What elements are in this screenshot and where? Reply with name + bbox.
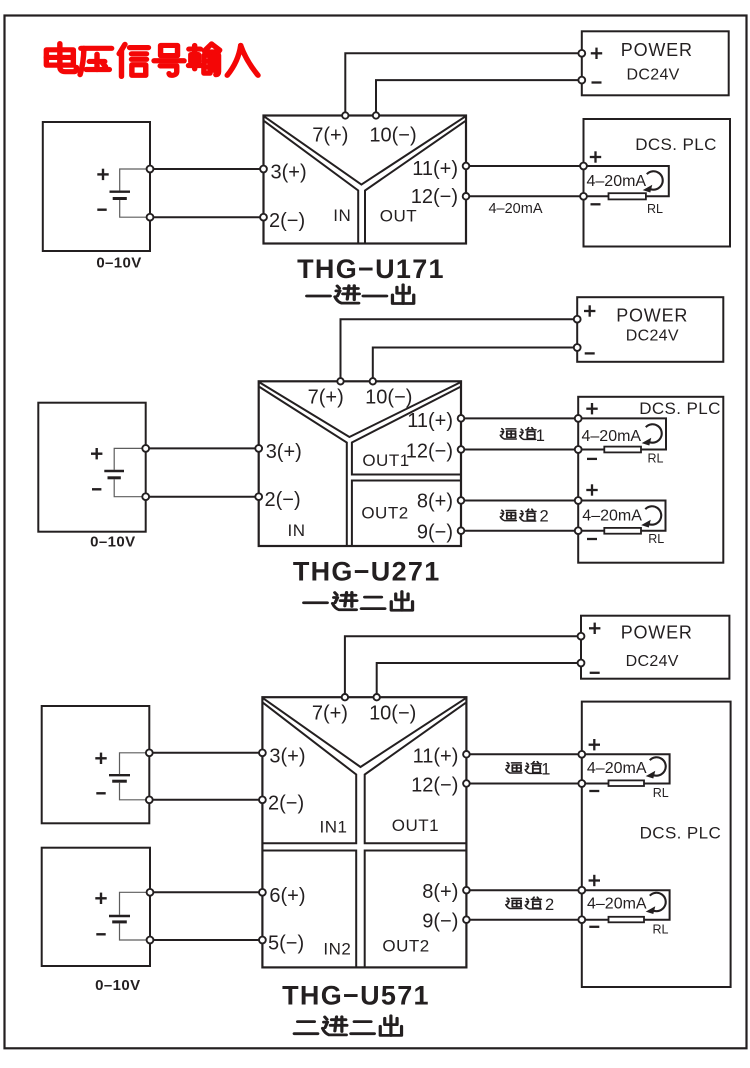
P1 + sign <box>591 48 602 59</box>
svg-text:DCS. PLC: DCS. PLC <box>635 135 717 154</box>
battery symbol VS1 <box>97 169 147 218</box>
svg-text:IN1: IN1 <box>320 817 348 836</box>
U2 pin 2 terminal <box>255 493 262 500</box>
wire U1 pin12 to D1 - <box>469 195 583 197</box>
U2 pin 10 terminal <box>370 378 376 384</box>
svg-text:DCS. PLC: DCS. PLC <box>640 824 722 843</box>
U2 pin 12 terminal <box>458 446 465 453</box>
svg-text:1: 1 <box>541 761 550 779</box>
D2 ch2 current loop <box>582 501 666 531</box>
U2 pin 11 terminal <box>458 415 465 422</box>
wire VS3b- to U3 5(-) <box>153 939 262 941</box>
node VS3a - <box>146 796 153 803</box>
P3 + sign <box>589 623 600 634</box>
P1 + terminal <box>578 50 585 57</box>
voltage source box VS3b (0-10V) <box>42 848 150 966</box>
svg-text:4–20mA: 4–20mA <box>582 428 642 445</box>
svg-text:7(+): 7(+) <box>308 387 344 409</box>
svg-text:RL: RL <box>648 451 664 465</box>
U3 pin 5 terminal <box>259 937 266 944</box>
svg-text:4–20mA: 4–20mA <box>488 201 542 217</box>
label 通道 2 (channel 2, U3) <box>506 896 554 914</box>
node VS2 + <box>142 445 149 452</box>
U2 IN section divider <box>259 387 346 546</box>
U1 pin 12 terminal <box>463 193 470 200</box>
battery symbol VS2 <box>91 448 143 497</box>
wire U1 pin11 to D1 + <box>469 165 583 167</box>
D2 ch1 load resistor RL <box>604 447 641 453</box>
svg-text:DC24V: DC24V <box>626 328 679 345</box>
wire U2 pin8 to D2 ch2+ <box>464 500 578 502</box>
svg-text:IN2: IN2 <box>323 939 351 958</box>
D2 ch2 + terminal <box>575 497 582 504</box>
label 通道1 (channel 1, U3) <box>506 761 551 779</box>
svg-text:3(+): 3(+) <box>269 745 305 767</box>
P3 + terminal <box>578 633 585 640</box>
svg-text:IN: IN <box>288 521 306 540</box>
svg-text:2(−): 2(−) <box>265 489 301 511</box>
wire U2 pin10 to P2 - <box>373 348 574 378</box>
power supply box P1 <box>582 31 729 95</box>
isolator module U3 THG-U571 body <box>262 697 466 967</box>
wire VS2- to U2 2(-) <box>149 496 259 498</box>
wire VS2+ to U2 3(+) <box>149 447 259 449</box>
D1 + sign <box>590 151 601 162</box>
U3 OUT1 section divider <box>365 703 467 843</box>
DCS PLC box D1 <box>584 119 731 247</box>
svg-text:DC24V: DC24V <box>627 66 680 83</box>
U3 pin 12 terminal <box>463 780 470 787</box>
D3 ch1 current loop <box>585 754 669 783</box>
svg-text:RL: RL <box>653 923 669 937</box>
svg-text:2(−): 2(−) <box>268 792 304 814</box>
D2 ch1 - sign <box>587 458 597 460</box>
D3 ch2 + terminal <box>578 887 585 894</box>
P2 + terminal <box>574 316 581 323</box>
U1 wedge divider (Y top) <box>265 117 466 185</box>
U3 pin 11 terminal <box>463 751 470 758</box>
D3 ch1 - sign <box>589 790 599 792</box>
label 通道1 (channel 1) <box>500 427 545 445</box>
node VS3b - <box>147 937 154 944</box>
svg-text:6(+): 6(+) <box>269 885 305 907</box>
node VS2 - <box>142 493 149 500</box>
voltage source box VS1 (0-10V) <box>43 122 150 251</box>
wire U2 pin9 to D2 ch2- <box>464 530 578 532</box>
P2 + sign <box>584 305 595 316</box>
node VS3a + <box>146 749 153 756</box>
wire U2 pin11 to D2 ch1+ <box>464 417 578 419</box>
D3 ch2 loop arrow <box>646 893 666 914</box>
P1 - terminal <box>578 77 585 84</box>
D2 ch1 loop arrow <box>642 424 662 445</box>
U1 IN section divider <box>264 121 358 243</box>
D2 ch1 + terminal <box>575 415 582 422</box>
node VS1 + <box>147 166 154 173</box>
voltage source box VS2 (0-10V) <box>38 403 145 532</box>
svg-text:0–10V: 0–10V <box>95 977 140 994</box>
U2 subtitle 一进二出 <box>304 591 413 610</box>
P2 - sign <box>585 352 595 354</box>
svg-text:4–20mA: 4–20mA <box>582 507 642 524</box>
D2 ch2 + sign <box>586 484 597 495</box>
U3 pin 6 terminal <box>259 889 266 896</box>
svg-text:3(+): 3(+) <box>266 441 302 463</box>
U1 OUT section divider <box>365 121 465 243</box>
D2 ch1 current loop <box>582 418 666 449</box>
svg-text:OUT1: OUT1 <box>362 451 409 470</box>
U1 pin 10 terminal <box>373 112 379 118</box>
svg-text:2: 2 <box>545 896 554 914</box>
wire VS3a+ to U3 3(+) <box>153 752 263 754</box>
svg-text:9(−): 9(−) <box>417 522 453 544</box>
svg-text:THG−U571: THG−U571 <box>282 980 430 1010</box>
wire U3 pin8 to D3 ch2+ <box>470 889 582 891</box>
P3 - sign <box>590 672 600 674</box>
svg-text:9(−): 9(−) <box>422 911 458 933</box>
D1 - terminal <box>580 193 587 200</box>
U3 pin 7 terminal <box>342 694 348 700</box>
P2 - terminal <box>574 344 581 351</box>
D2 ch2 - sign <box>587 538 597 540</box>
D3 ch2 - terminal <box>578 916 585 923</box>
svg-text:OUT: OUT <box>380 206 417 225</box>
D2 ch2 load resistor RL <box>604 528 641 534</box>
U2 wedge divider (Y top) <box>260 383 460 438</box>
svg-text:7(+): 7(+) <box>312 702 348 724</box>
wire U1 pin7 to P1 + <box>345 53 578 112</box>
D2 ch2 - terminal <box>575 527 582 534</box>
svg-text:RL: RL <box>653 786 669 800</box>
U3 OUT2 section divider <box>365 851 467 968</box>
svg-text:4–20mA: 4–20mA <box>587 896 647 913</box>
node VS3b + <box>147 889 154 896</box>
wire VS1- to U1 2(-) <box>153 216 264 218</box>
svg-text:DCS. PLC: DCS. PLC <box>639 399 721 418</box>
D1 - sign <box>591 203 601 205</box>
U3 pin 3 terminal <box>259 749 266 756</box>
D3 ch1 load resistor RL <box>609 780 645 786</box>
svg-text:10(−): 10(−) <box>369 702 416 724</box>
U3 pin 10 terminal <box>374 694 380 700</box>
svg-text:12(−): 12(−) <box>406 441 453 463</box>
svg-text:4–20mA: 4–20mA <box>587 760 647 777</box>
U2 OUT2 section divider <box>352 481 461 547</box>
wire U3 pin10 to P3 - <box>377 663 578 694</box>
D1 current loop 4-20mA <box>587 166 669 196</box>
svg-text:OUT2: OUT2 <box>382 936 429 955</box>
svg-text:OUT2: OUT2 <box>361 504 408 523</box>
svg-text:4–20mA: 4–20mA <box>587 173 647 190</box>
svg-text:10(−): 10(−) <box>369 124 416 146</box>
svg-text:POWER: POWER <box>621 623 693 643</box>
battery symbol VS3b <box>95 892 147 940</box>
DCS PLC box D2 <box>578 397 723 563</box>
D2 ch1 + sign <box>586 403 597 414</box>
svg-text:11(+): 11(+) <box>412 158 458 180</box>
svg-text:DC24V: DC24V <box>626 653 679 670</box>
svg-text:0–10V: 0–10V <box>90 534 135 551</box>
U1 pin 7 terminal <box>342 112 348 118</box>
D3 ch1 + sign <box>589 739 600 750</box>
wire U2 pin7 to P2 + <box>341 319 574 378</box>
title 电压信号输入 (red) <box>46 44 258 77</box>
svg-text:3(+): 3(+) <box>271 162 307 184</box>
U3 IN2 section divider <box>262 851 356 968</box>
D3 ch2 load resistor RL <box>609 917 645 923</box>
node VS1 - <box>147 214 154 221</box>
wire U3 pin7 to P3 + <box>345 636 578 694</box>
svg-text:RL: RL <box>647 202 663 216</box>
D2 ch1 - terminal <box>575 446 582 453</box>
svg-text:1: 1 <box>536 427 545 445</box>
svg-text:2(−): 2(−) <box>269 210 305 232</box>
U1 pin 11 terminal <box>463 163 470 170</box>
P1 - sign <box>592 81 602 83</box>
U3 subtitle 二进二出 <box>294 1016 401 1036</box>
U2 OUT1 section divider <box>352 387 461 475</box>
svg-text:2: 2 <box>540 508 549 526</box>
svg-text:IN: IN <box>333 206 351 225</box>
svg-text:0–10V: 0–10V <box>96 255 141 272</box>
wire VS1+ to U1 3(+) <box>153 168 264 170</box>
power supply box P3 <box>581 616 729 679</box>
P3 - terminal <box>578 660 585 667</box>
svg-text:7(+): 7(+) <box>312 124 348 146</box>
svg-text:8(+): 8(+) <box>417 491 453 513</box>
svg-text:POWER: POWER <box>616 305 688 325</box>
U3 wedge divider (Y top) <box>263 698 465 767</box>
D3 ch2 + sign <box>589 875 600 886</box>
svg-text:POWER: POWER <box>621 40 693 60</box>
label 通道 2 (channel 2) <box>500 508 548 526</box>
svg-text:THG−U171: THG−U171 <box>297 254 445 284</box>
DCS PLC box D3 <box>582 702 731 987</box>
power supply box P2 <box>577 297 723 362</box>
wire U2 pin12 to D2 ch1- <box>464 449 578 451</box>
D3 ch2 - sign <box>589 926 599 928</box>
U2 pin 9 terminal <box>458 527 465 534</box>
svg-text:12(−): 12(−) <box>411 186 458 208</box>
U3 pin 2 terminal <box>259 796 266 803</box>
D3 ch2 current loop <box>585 890 669 920</box>
wire U3 pin11 to D3 ch1+ <box>470 753 582 755</box>
isolator module U2 THG-U271 body <box>259 381 461 546</box>
U3 IN1 section divider <box>262 703 356 843</box>
wire U3 pin12 to D3 ch1- <box>470 783 582 785</box>
svg-text:8(+): 8(+) <box>422 881 458 903</box>
D3 ch1 - terminal <box>578 780 585 787</box>
svg-text:THG−U271: THG−U271 <box>293 557 441 587</box>
D3 ch1 + terminal <box>578 751 585 758</box>
U1 pin 2 terminal <box>260 214 267 221</box>
U3 pin 8 terminal <box>463 887 470 894</box>
D3 ch1 loop arrow <box>646 757 666 778</box>
svg-text:OUT1: OUT1 <box>392 816 439 835</box>
U1 pin 3 terminal <box>260 166 267 173</box>
U1 subtitle 一进一出 <box>307 285 414 304</box>
D2 ch2 loop arrow <box>641 506 661 527</box>
svg-text:11(+): 11(+) <box>413 745 459 767</box>
svg-text:RL: RL <box>648 532 664 546</box>
wire VS3a- to U3 2(-) <box>153 799 263 801</box>
wire U3 pin9 to D3 ch2- <box>470 919 582 921</box>
D1 loop arrow <box>643 171 663 192</box>
U2 pin 8 terminal <box>458 497 465 504</box>
U3 pin 9 terminal <box>463 916 470 923</box>
wire VS3b+ to U3 6(+) <box>153 891 262 893</box>
svg-text:12(−): 12(−) <box>411 775 458 797</box>
isolator module U1 THG-U171 body <box>264 116 467 244</box>
U2 pin 3 terminal <box>255 445 262 452</box>
U2 pin 7 terminal <box>337 378 343 384</box>
svg-text:5(−): 5(−) <box>268 933 304 955</box>
svg-text:10(−): 10(−) <box>365 387 412 409</box>
wire U1 pin10 to P1 - <box>376 80 578 112</box>
D1 load resistor RL <box>609 193 646 199</box>
svg-text:11(+): 11(+) <box>407 410 453 432</box>
battery symbol VS3a <box>95 753 146 800</box>
voltage source box VS3a (0-10V) <box>42 706 150 823</box>
D1 + terminal <box>580 163 587 170</box>
